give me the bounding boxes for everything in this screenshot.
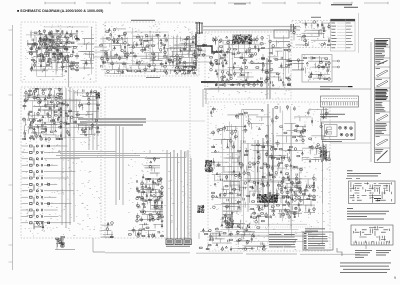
main amp L-ch block outline bbox=[105, 22, 199, 76]
terminal arrows right of headphone board bbox=[332, 61, 338, 67]
top edge ruler dashes bbox=[45, 2, 388, 4]
caption under pin table bbox=[320, 114, 345, 117]
PCB pattern view (bottom) bbox=[351, 225, 393, 245]
phono amp core dense parts bbox=[38, 33, 71, 62]
parts list table bbox=[331, 19, 356, 51]
connector blob CN502 bbox=[197, 205, 204, 213]
darkest blob: bridge rectifier block bbox=[257, 194, 278, 203]
junction blob at tone amp output bbox=[95, 92, 100, 99]
power supply left column parts bbox=[211, 150, 241, 214]
left margin ruler bbox=[9, 25, 13, 270]
phono amp block outline bbox=[21, 22, 96, 82]
bottom separator rule bbox=[105, 253, 360, 255]
supply rail bus bbox=[204, 88, 330, 90]
right mid cluster bbox=[301, 145, 330, 162]
tone amp caps C201-C214 bbox=[62, 89, 100, 136]
model text bbox=[331, 4, 358, 8]
muting circuit parts Q601-Q604 bbox=[293, 21, 331, 46]
wire junction dark bbox=[320, 150, 327, 159]
headphone amp parts Q611-Q614 bbox=[304, 56, 331, 80]
phono amp right section: C101-C110 bbox=[76, 38, 95, 70]
vertical bus bundle A bbox=[62, 55, 74, 228]
dense scan blob in phono amp bbox=[39, 36, 54, 49]
long wires B5 bbox=[210, 106, 322, 246]
main amp output extra parts bbox=[168, 40, 196, 72]
wires to switch block bbox=[56, 150, 186, 158]
speaker terminal parts bbox=[196, 44, 207, 56]
Note 2 text bbox=[347, 208, 389, 219]
ref designator text noise B2 bbox=[22, 89, 100, 236]
adjustment board box bbox=[322, 122, 356, 140]
main amp input stage Q301-Q304 bbox=[100, 28, 127, 74]
power supply block outline bbox=[208, 102, 330, 251]
dense blob protection bbox=[232, 34, 252, 44]
note above pin table bbox=[320, 86, 347, 89]
ref designator text noise B1 bbox=[23, 25, 94, 80]
small parts table bottom right-left bbox=[303, 232, 333, 250]
bus end connector left bbox=[195, 22, 203, 34]
protection circuit Q401-Q410 bbox=[210, 36, 265, 64]
main amp driver stage Q305-Q312 bbox=[126, 34, 166, 72]
tone control / input block outline bbox=[21, 87, 101, 238]
long wires B4 bbox=[208, 35, 289, 93]
caption under pattern (right) bbox=[376, 250, 391, 255]
power block bottom parts bbox=[199, 228, 233, 250]
vertical bus bundle C (to connectors) bbox=[167, 150, 191, 239]
regulator sub parts bbox=[296, 124, 306, 137]
protection circuit lower resistors bbox=[210, 62, 291, 86]
bold segment bbox=[348, 86, 353, 87]
vertical bus bundle D bbox=[116, 126, 123, 205]
switch block bottom parts bbox=[128, 223, 163, 237]
long wires B1 bbox=[26, 27, 92, 77]
component refs in pattern bbox=[374, 198, 381, 201]
ref designator text noise B4 bbox=[207, 33, 291, 98]
bottom left bracket bbox=[55, 238, 105, 252]
power output terminals parts bbox=[230, 217, 266, 251]
PCB pattern view (top) bbox=[349, 181, 396, 204]
mid bottom small parts bbox=[101, 222, 113, 238]
main amp output stage Q313-Q318 bbox=[165, 36, 197, 74]
headphone amp board outline bbox=[302, 55, 332, 83]
legend column (right edge) bbox=[375, 39, 391, 163]
muting block title bbox=[311, 16, 321, 19]
bus end marks right bbox=[291, 24, 294, 32]
footnotes bbox=[340, 263, 391, 273]
left signal bus band bbox=[78, 119, 146, 125]
small step line bbox=[337, 248, 342, 256]
connector blob CN501 bbox=[205, 160, 212, 172]
dotted divider bbox=[232, 226, 320, 228]
connector dot 1 bbox=[237, 224, 240, 228]
dark wire path to protection block bbox=[196, 34, 222, 52]
caption under adjustment box bbox=[322, 140, 342, 143]
bottom-left component pair bbox=[56, 236, 65, 247]
ref designator text noise switch area bbox=[128, 150, 191, 237]
tone amp: Q201-Q208, R201-R230 bbox=[23, 88, 63, 140]
right schematic border line bbox=[330, 42, 371, 162]
vertical bus bundle B bbox=[89, 94, 97, 150]
phono eq amp: transistors Q101-Q106, resistors R101-R128 bbox=[30, 30, 79, 72]
rectifier diodes D501-D516 bbox=[280, 175, 316, 215]
long wires B3 bbox=[101, 28, 197, 71]
dashed line right of table bbox=[358, 13, 360, 53]
relay RY01 bbox=[274, 30, 289, 38]
svg-text:9: 9 bbox=[394, 276, 396, 280]
power supply top wiring bbox=[210, 106, 328, 148]
Note 1 text bbox=[347, 170, 381, 176]
vertical feed wires to rectifier bbox=[258, 58, 273, 195]
power supply regulators Q501-Q512 bbox=[238, 148, 303, 219]
switch parts above relay bbox=[142, 158, 160, 178]
right mid vertical wires bbox=[324, 107, 327, 161]
relay drive parts bbox=[262, 40, 291, 62]
power transformer T501 bbox=[221, 212, 234, 228]
protection circuit block outline bbox=[205, 32, 291, 99]
ref designator text noise B7 bbox=[304, 56, 331, 81]
muting block outline bbox=[292, 21, 331, 48]
svg-text:■ SCHEMATIC DIAGRAM (A-1000/10: ■ SCHEMATIC DIAGRAM (A-1000/1000 & 1000-… bbox=[17, 9, 104, 13]
connector pinout table bbox=[321, 96, 359, 107]
parts right of protection block bbox=[289, 59, 304, 70]
tiny label above pattern bbox=[346, 177, 360, 180]
main amp label bbox=[131, 20, 155, 21]
speaker output bus (upper, double gray) bbox=[203, 27, 300, 31]
caption under pattern (left) bbox=[355, 250, 372, 258]
ref designator text noise B3 bbox=[100, 24, 199, 75]
verticals into power block bbox=[203, 89, 255, 212]
ref designator text noise B5 bbox=[209, 103, 330, 250]
ref designator text noise B6 bbox=[293, 21, 330, 46]
center top label bbox=[234, 3, 246, 6]
function switch block outline bbox=[105, 87, 190, 238]
inter-block coupling wires bbox=[94, 46, 210, 62]
voltage table bottom center bbox=[269, 234, 297, 247]
bottom-left parts bbox=[34, 221, 44, 230]
connector caption bbox=[166, 245, 190, 248]
leader line to caption bbox=[365, 245, 367, 249]
block sub label bbox=[146, 76, 160, 79]
heavy ground bus bbox=[201, 81, 263, 83]
label above table bbox=[305, 228, 325, 231]
connector row CN601-CN603 bbox=[166, 239, 191, 245]
pin ticks bottom of pattern bbox=[354, 242, 389, 245]
relay switch cluster bbox=[136, 178, 164, 222]
input selector jack rows bbox=[22, 145, 80, 229]
phono amp left knot bbox=[27, 40, 38, 55]
long wires B2 bbox=[23, 88, 97, 139]
connector dot 2 bbox=[247, 224, 250, 228]
